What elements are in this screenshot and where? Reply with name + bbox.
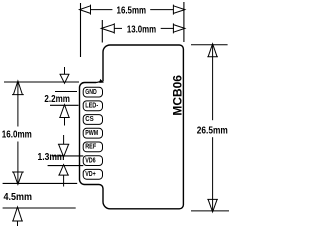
pin pad CS <box>83 115 102 125</box>
svg-text:REF: REF <box>85 144 97 151</box>
extension line top right <box>183 2 185 42</box>
svg-text:4.5mm: 4.5mm <box>4 192 33 203</box>
pin pad VD+ <box>83 169 102 179</box>
extension line left D (4.5 bottom) <box>3 207 76 209</box>
pin pad LED- <box>83 101 102 111</box>
svg-text:1.3mm: 1.3mm <box>38 152 65 163</box>
arrow 26.5mm bottom <box>207 199 218 212</box>
svg-text:LED-: LED- <box>85 103 99 110</box>
pin pad GND <box>83 87 102 97</box>
arrow 2.2mm lower (points up at line P2) <box>59 105 70 118</box>
dimension line 16.0mm <box>17 82 19 127</box>
dimension line 26.5mm <box>212 45 214 120</box>
arrow 16.0mm bottom <box>12 172 24 184</box>
svg-text:16.0mm: 16.0mm <box>2 130 32 141</box>
pin pad REF <box>83 142 102 152</box>
svg-text:PWM: PWM <box>85 130 98 137</box>
extension line 26.5mm top <box>191 44 228 46</box>
svg-text:13.0mm: 13.0mm <box>127 24 156 35</box>
extension line 1.3mm bottom <box>48 165 84 167</box>
module body outline <box>80 45 184 209</box>
pin pad VD6 <box>83 156 102 166</box>
svg-text:MCB06: MCB06 <box>173 75 185 116</box>
extension line left C (16.0 bottom / 4.5 top) <box>3 182 78 184</box>
pin pad PWM <box>83 128 102 138</box>
arrow 1.3mm upper (points down) <box>63 135 65 144</box>
dimension line 13.0mm <box>114 27 122 29</box>
outline hook arrow at pin-block top junction <box>96 80 101 82</box>
arrow 16.5mm right <box>173 5 185 15</box>
svg-text:16.5mm: 16.5mm <box>117 5 147 16</box>
svg-text:26.5mm: 26.5mm <box>197 125 228 136</box>
extension line left P1 (2.2 top, pad pitch) <box>55 91 77 93</box>
extension line 16.5mm left <box>80 3 82 57</box>
svg-text:GND: GND <box>85 89 97 96</box>
arrow 1.3mm lower (points up) <box>58 165 69 176</box>
extension line left A (16.0/2.2 top) <box>4 81 79 83</box>
extension line 13.0mm left <box>101 20 103 43</box>
extension line 1.3mm top <box>52 155 83 157</box>
svg-text:CS: CS <box>85 116 94 123</box>
arrow 26.5mm top <box>207 44 218 57</box>
dimension line 16.5mm <box>91 9 113 11</box>
arrow 13.0mm left <box>101 23 114 33</box>
arrow 2.2mm upper (points down at line A) <box>64 67 66 74</box>
arrow 16.5mm left <box>80 5 91 15</box>
extension line 26.5mm bottom <box>191 210 229 212</box>
svg-text:VD6: VD6 <box>85 157 96 164</box>
arrow 13.0mm right <box>173 23 185 33</box>
svg-text:VD+: VD+ <box>85 171 96 178</box>
svg-text:2.2mm: 2.2mm <box>44 94 70 105</box>
arrow 4.5mm (points up at line D) <box>12 207 23 221</box>
extension line left P2 (2.2 bottom) <box>50 104 79 106</box>
arrow 16.0mm top <box>12 81 24 95</box>
